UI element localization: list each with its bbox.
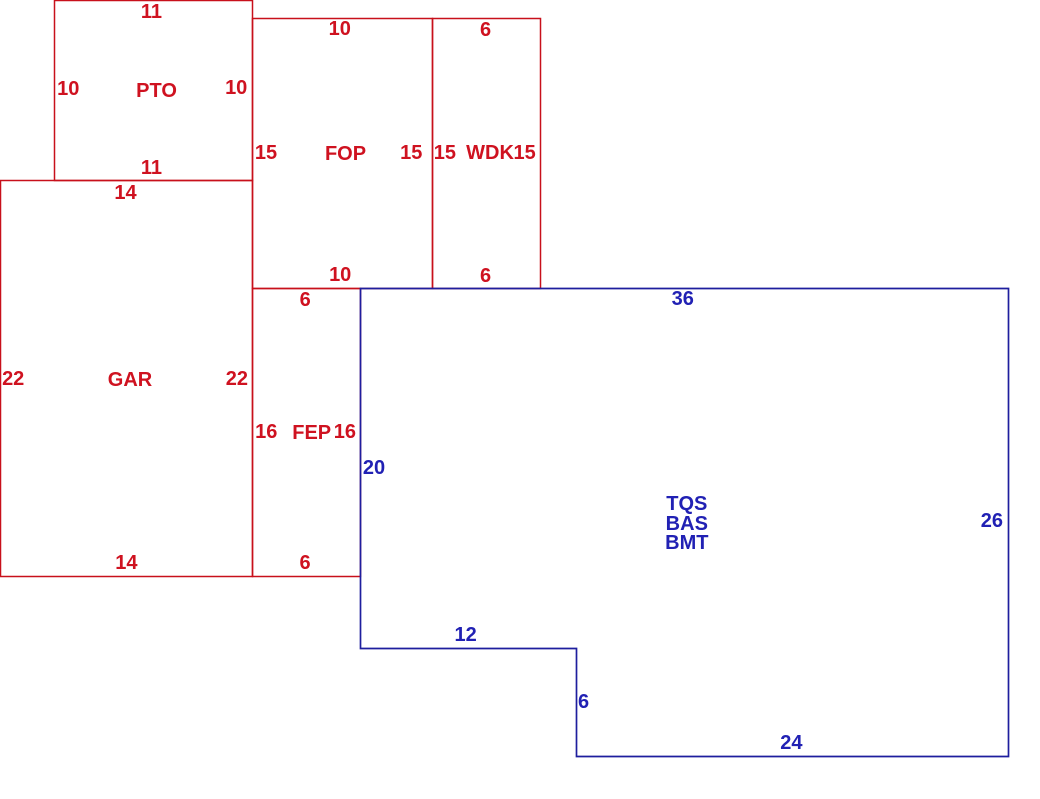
dimension 36 (basement top)	[672, 289, 694, 309]
dimension 10 (PTO right)	[225, 78, 247, 98]
room FEP outline	[253, 289, 361, 577]
dimension 14 (GAR bottom)	[115, 553, 137, 573]
room FOP outline	[253, 19, 433, 289]
room WDK outline	[433, 19, 541, 289]
dimension 6 (FEP top)	[300, 290, 311, 310]
room label FEP	[292, 423, 331, 443]
dimension 15 (FOP left)	[255, 143, 277, 163]
dimension 16 (FEP left)	[255, 422, 277, 442]
dimension 10 (FOP top)	[329, 19, 351, 39]
dimension 20 (basement left)	[363, 458, 385, 478]
dimension 24 (basement bottom)	[780, 733, 802, 753]
room PTO outline	[55, 1, 253, 181]
dimension 26 (basement right)	[981, 511, 1003, 531]
dimension 15 (WDK left)	[434, 143, 456, 163]
dimension 11 (PTO bottom)	[141, 158, 162, 178]
room label FOP	[325, 144, 366, 164]
area label BAS	[666, 514, 708, 534]
area label BMT	[665, 533, 708, 553]
room label PTO	[136, 81, 177, 101]
dimension 15 (FOP right)	[400, 143, 422, 163]
dimension 10 (FOP bottom)	[329, 265, 351, 285]
dimension 14 (GAR top)	[114, 183, 136, 203]
dimension 6 (WDK top)	[480, 20, 491, 40]
dimension 22 (GAR left)	[2, 369, 24, 389]
room label GAR	[108, 370, 152, 390]
dimension 16 (FEP right)	[334, 422, 356, 442]
room label WDK	[466, 143, 514, 163]
dimension 6 (FEP bottom)	[299, 553, 310, 573]
dimension 22 (GAR right)	[226, 369, 248, 389]
room GAR outline	[1, 181, 253, 577]
dimension 11 (PTO top)	[141, 2, 162, 22]
dimension 15 (WDK right)	[513, 143, 535, 163]
dimension 12 (basement step top)	[454, 625, 476, 645]
area label TQS	[666, 494, 707, 514]
dimension 6 (basement step side)	[578, 692, 589, 712]
dimension 10 (PTO left)	[57, 79, 79, 99]
dimension 6 (WDK bottom)	[480, 266, 491, 286]
room TQS/BAS/BMT outline (blue, drawn on top)	[361, 289, 1009, 757]
